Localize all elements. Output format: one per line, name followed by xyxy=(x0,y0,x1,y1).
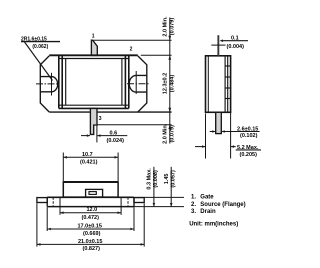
callout leader xyxy=(25,42,53,81)
dim 5.2 fraction bar xyxy=(236,149,261,151)
callout 2R1.6 text xyxy=(21,36,49,50)
svg-text:(0.205): (0.205) xyxy=(240,152,258,158)
body top inner line xyxy=(59,58,129,60)
front view flange top line xyxy=(47,196,134,198)
svg-text:21.0±0.15: 21.0±0.15 xyxy=(78,239,102,245)
svg-text:2.0 Min.: 2.0 Min. xyxy=(163,123,169,144)
arrowheads on right dimension stack xyxy=(168,36,171,129)
body second verticals xyxy=(61,55,63,108)
svg-text:0.3 Max.: 0.3 Max. xyxy=(147,168,153,190)
svg-text:0.6: 0.6 xyxy=(110,131,118,137)
svg-text:17.0±0.15: 17.0±0.15 xyxy=(78,224,102,230)
dim 5.2 arrows xyxy=(195,146,205,148)
svg-text:(0.484): (0.484) xyxy=(170,75,176,93)
side view inner left line xyxy=(207,56,209,113)
left flange tab xyxy=(40,56,57,112)
front view right lead xyxy=(134,198,144,203)
right dimension line stack xyxy=(169,18,171,144)
svg-text:2.0 Min.: 2.0 Min. xyxy=(163,16,169,37)
front view cap top thick edge xyxy=(63,181,118,183)
svg-text:(0.062): (0.062) xyxy=(32,44,48,50)
svg-text:1.: 1. xyxy=(191,194,196,200)
dim 10.7 text xyxy=(80,152,98,166)
flange bottom edge xyxy=(49,111,90,113)
svg-text:(0.004): (0.004) xyxy=(227,44,245,50)
extension from body top to dimension xyxy=(141,54,172,56)
front view pedestal ticks / 12.0 extensions xyxy=(59,197,61,215)
svg-text:2: 2 xyxy=(130,47,133,53)
dim 0.6 lead width arrows xyxy=(81,135,90,137)
body third verticals xyxy=(65,59,67,106)
svg-text:1: 1 xyxy=(92,33,95,39)
dim 1.45 text (rotated) xyxy=(164,170,177,188)
front view dim 10.7 extension lines xyxy=(62,153,64,182)
dim 0.6 text xyxy=(107,131,125,144)
dim 21.0 line xyxy=(37,243,144,245)
svg-text:(0.057): (0.057) xyxy=(171,170,177,188)
svg-text:(0.827): (0.827) xyxy=(83,246,101,252)
svg-text:Gate: Gate xyxy=(200,194,214,200)
top view body top edge xyxy=(49,54,138,56)
side view strip dividers xyxy=(225,65,231,67)
right slot crosshair xyxy=(127,83,150,85)
dim 21.0 text xyxy=(78,239,102,252)
svg-text:1.45: 1.45 xyxy=(164,174,170,185)
front view extension lines to lower dims xyxy=(36,203,38,246)
svg-text:Unit: mm(inches): Unit: mm(inches) xyxy=(189,221,238,227)
top view drain lead (pin 3) xyxy=(90,108,97,134)
drain lead edge extension xyxy=(96,125,98,142)
callout underline xyxy=(21,41,60,43)
svg-text:(0.024): (0.024) xyxy=(107,138,125,144)
dim 0.3 Max text (rotated) xyxy=(147,168,159,190)
dim 10.7 line xyxy=(63,156,118,158)
svg-text:2.: 2. xyxy=(191,202,196,208)
dim 0.1 text xyxy=(227,36,245,50)
svg-text:12.3±0.2: 12.3±0.2 xyxy=(163,73,169,94)
body bottom inner line xyxy=(59,104,129,106)
svg-text:3: 3 xyxy=(99,116,102,122)
svg-text:(0.079): (0.079) xyxy=(170,18,176,36)
dim 0.1 fraction bar xyxy=(222,40,248,42)
side view inner right strip xyxy=(224,56,226,113)
dim 0.3 Max vertical line xyxy=(153,167,155,207)
svg-text:(0.472): (0.472) xyxy=(82,215,100,221)
svg-text:(0.669): (0.669) xyxy=(83,231,101,237)
dim text 2.0 top (rotated) xyxy=(163,16,176,37)
front view boss inner xyxy=(89,192,96,195)
front view right extension lines A and B xyxy=(134,196,184,198)
svg-text:12.0: 12.0 xyxy=(87,207,98,213)
front view flange bottom xyxy=(47,206,134,208)
dim 12.0 text xyxy=(82,207,100,221)
right flange tab xyxy=(129,56,147,112)
side view lead tick xyxy=(211,44,225,46)
front view flange sides xyxy=(46,197,48,206)
svg-text:3.: 3. xyxy=(191,209,196,215)
body outer verticals xyxy=(58,55,60,108)
side view drain lead down xyxy=(216,112,222,133)
top view gate lead (pin 1) xyxy=(91,40,97,55)
dim text 2.0 bottom (rotated) xyxy=(163,123,176,144)
front view cap xyxy=(63,182,118,197)
dim 5.2 text xyxy=(237,145,259,158)
svg-text:2.6±0.15: 2.6±0.15 xyxy=(237,126,258,132)
legend xyxy=(189,194,245,227)
dim 17.0 line xyxy=(47,228,134,230)
left slot crosshair xyxy=(36,83,60,85)
side view body outline xyxy=(206,56,231,113)
svg-text:(0.008): (0.008) xyxy=(153,170,159,188)
side view gate lead up xyxy=(217,35,219,56)
dim text 12.3 (rotated) xyxy=(163,73,176,94)
body bottom outer edge xyxy=(59,107,129,109)
svg-text:Source (Flange): Source (Flange) xyxy=(200,202,245,208)
svg-text:10.7: 10.7 xyxy=(82,152,93,158)
dim 12.0 line xyxy=(60,212,121,214)
extension line from drain lead tip xyxy=(97,124,171,126)
side view extension lines xyxy=(205,114,207,159)
svg-text:(0.102): (0.102) xyxy=(240,133,258,139)
dim 17.0 text xyxy=(78,224,102,238)
dim 2.6 arrows xyxy=(210,131,216,133)
front view boss outer xyxy=(86,189,103,197)
svg-text:Drain: Drain xyxy=(200,209,216,215)
dim 2.6 text xyxy=(237,126,258,139)
dim 0.1 leader arrow xyxy=(220,39,223,42)
front view left lead xyxy=(37,198,47,203)
front view slot hidden lines xyxy=(52,197,54,206)
extension line from gate lead top xyxy=(93,39,172,41)
svg-text:(0.421): (0.421) xyxy=(80,159,98,165)
dim 1.45 vertical line xyxy=(170,167,172,207)
svg-text:(0.079): (0.079) xyxy=(170,125,176,143)
